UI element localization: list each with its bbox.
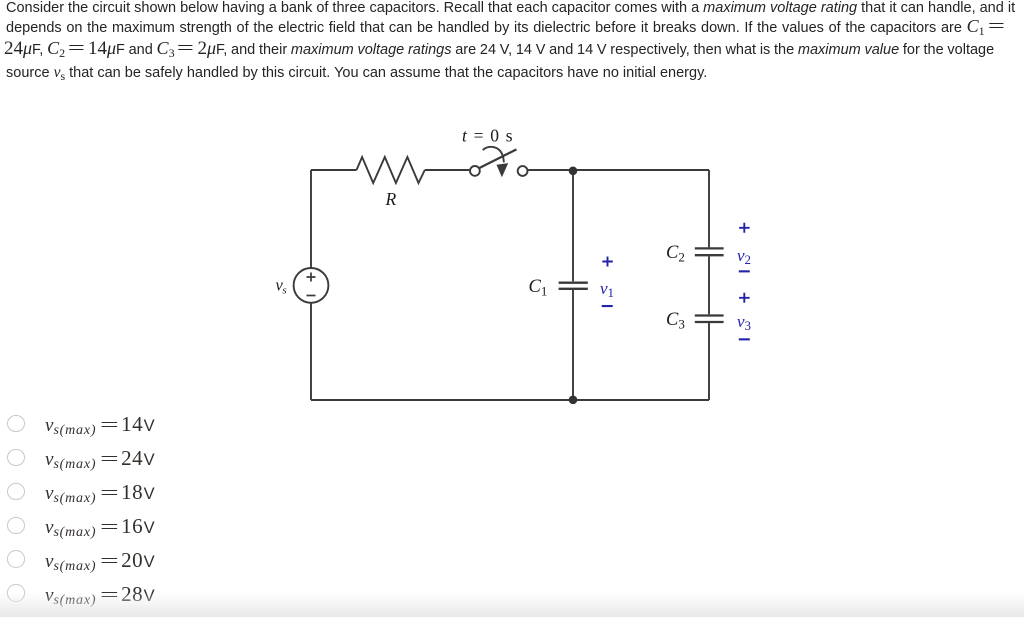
source minus sign xyxy=(307,295,316,297)
radio button 3 xyxy=(7,483,25,501)
option 2 label vs(max) = 24 V xyxy=(45,446,155,470)
answer option 5 xyxy=(0,547,400,571)
v2 plus xyxy=(739,223,750,233)
v2 minus xyxy=(739,270,750,272)
switch arrow head xyxy=(497,163,509,177)
answer option 6 xyxy=(0,581,400,605)
svg-text:v2: v2 xyxy=(737,246,751,267)
wire C1 branch lower xyxy=(572,290,574,400)
wire C1 branch upper xyxy=(572,170,574,281)
v3 minus xyxy=(739,338,750,340)
source plus sign xyxy=(307,273,316,296)
svg-text:t = 0 s: t = 0 s xyxy=(462,126,513,146)
wire between C2 and C3 xyxy=(708,256,710,314)
wire right branch upper xyxy=(708,170,710,247)
option 5 label vs(max) = 20 V xyxy=(45,548,155,572)
svg-text:R: R xyxy=(385,189,397,209)
wire resistor to switch xyxy=(425,169,470,171)
switch right terminal xyxy=(518,166,528,176)
resistor R xyxy=(357,157,425,183)
switch blade xyxy=(480,149,517,168)
radio button 1 xyxy=(7,415,25,433)
wire left vertical bottom (source to bottom-left corner) xyxy=(310,303,312,400)
svg-text:v1: v1 xyxy=(600,279,614,300)
option 6 label vs(max) = 28 V xyxy=(45,582,155,606)
svg-text:C3: C3 xyxy=(666,310,685,332)
radio button 5 xyxy=(7,550,25,568)
option 4 label vs(max) = 16 V xyxy=(45,514,155,538)
junction node bottom xyxy=(569,396,578,405)
answer option 4 xyxy=(0,513,400,537)
capacitor C2 plates xyxy=(695,248,724,255)
switch closing arc xyxy=(483,147,504,163)
svg-text:C1: C1 xyxy=(529,277,548,299)
voltage source vs xyxy=(294,268,329,303)
radio button 6 xyxy=(7,584,25,602)
svg-text:v3: v3 xyxy=(737,312,751,333)
answer option 1 xyxy=(0,412,400,436)
capacitor C3 plates xyxy=(695,316,724,323)
option 3 label vs(max) = 18 V xyxy=(45,480,155,504)
svg-text:vs: vs xyxy=(276,276,287,297)
svg-text:C2: C2 xyxy=(666,243,685,265)
v1 plus xyxy=(602,257,613,267)
switch left terminal xyxy=(470,166,480,176)
wire top (left corner to resistor) xyxy=(311,169,357,171)
option 1 label vs(max) = 14 V xyxy=(45,412,155,436)
wire right branch lower xyxy=(708,323,710,400)
wire bottom xyxy=(311,399,709,401)
v3 plus xyxy=(739,293,750,303)
answer option 3 xyxy=(0,479,400,503)
radio button 4 xyxy=(7,517,25,535)
wire switch to top-right corner xyxy=(527,169,709,171)
question paragraph xyxy=(6,0,1015,16)
radio button 2 xyxy=(7,449,25,467)
answer option 2 xyxy=(0,446,400,470)
bottom gradient shadow xyxy=(0,592,1024,617)
wire left vertical top (source to top-left corner) xyxy=(310,170,312,268)
junction node top xyxy=(569,167,578,176)
v1 minus xyxy=(602,305,613,307)
capacitor C1 plates xyxy=(559,283,588,289)
